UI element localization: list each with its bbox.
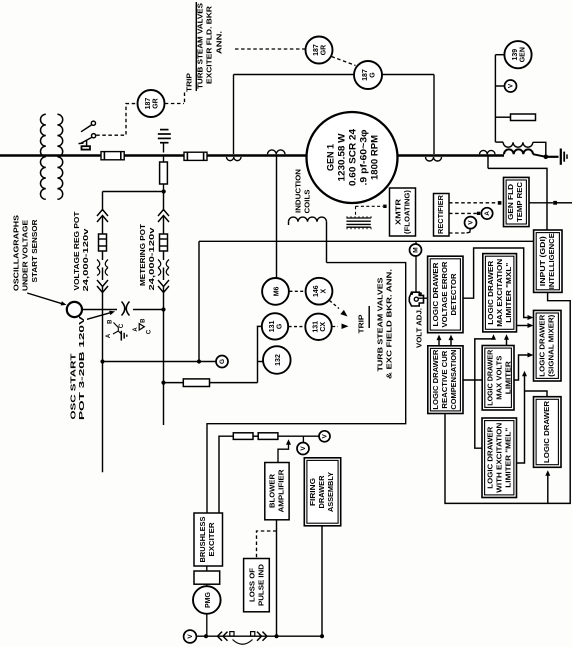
- exciter transformer top winding: [495, 141, 503, 143]
- wire volt adj to VED: [418, 297, 427, 299]
- svg-text:139: 139: [512, 49, 519, 61]
- wire induction coil down: [326, 222, 328, 263]
- relay 139 GEN: [504, 41, 531, 68]
- transformer T1 primary winding: [40, 114, 45, 199]
- dashed link 187GR-187G: [332, 57, 356, 66]
- capacitor C1 (above bus): [160, 129, 169, 131]
- svg-text:INTELLIGENCE: INTELLIGENCE: [547, 233, 556, 289]
- wire branch to logic drawer top: [525, 391, 548, 397]
- wire resistor to relay bracket: [210, 382, 258, 384]
- wire resistors to voltmeter: [278, 435, 319, 437]
- svg-text:B: B: [108, 319, 114, 324]
- ground (phase diagram): [118, 331, 121, 334]
- svg-text:LOGIC DRAWER: LOGIC DRAWER: [486, 426, 495, 489]
- wire rail to M: [415, 241, 417, 244]
- svg-text:(SIGNAL MIXER): (SIGNAL MIXER): [547, 314, 556, 377]
- svg-text:INPUT (GDI): INPUT (GDI): [538, 235, 547, 286]
- wire sensor to metering leg: [82, 309, 117, 311]
- wire MEL to signal mixer: [517, 373, 525, 463]
- generator GEN 1: [307, 112, 398, 203]
- wire MXL to signal mixer: [517, 325, 532, 327]
- box LOGIC DRAWER VOLTAGE ERROR DETECTOR: [428, 256, 463, 333]
- dashed wire hatch to XMTR: [355, 206, 357, 216]
- wire bus to input gdi: [488, 168, 547, 230]
- svg-text:WITH EXCITATION: WITH EXCITATION: [495, 423, 504, 493]
- svg-text:VOLT ADJ.: VOLT ADJ.: [415, 308, 424, 348]
- box LOGIC DRAWER REACTIVE CUR COMPENSATION: [428, 346, 463, 414]
- node metering/sensor: [161, 307, 165, 311]
- resistor R5: [258, 433, 278, 440]
- dashed control wire switch to relay 187GR: [96, 104, 136, 136]
- box GEN FLD TEMP REC: [504, 177, 530, 226]
- wire metering pot leg down: [163, 293, 165, 426]
- relay M6: [262, 278, 289, 305]
- dashed wire rectifier to ammeter: [449, 212, 477, 214]
- relay 187 GR (second): [306, 37, 333, 64]
- ammeter A: [481, 208, 492, 219]
- svg-text:G: G: [219, 359, 226, 364]
- wire blower amp down: [276, 520, 278, 636]
- svg-text:B: B: [141, 318, 147, 323]
- box INPUT (GDI) INTELLIGENCE: [534, 230, 562, 292]
- voltmeter V (firing): [297, 443, 309, 455]
- fuse / plug symbols: [218, 632, 223, 641]
- svg-text:ASSEMBLY: ASSEMBLY: [326, 472, 335, 512]
- wire PMG down: [206, 614, 208, 636]
- node blower leg: [274, 634, 278, 638]
- svg-text:24,000-120v: 24,000-120v: [81, 227, 90, 291]
- svg-text:LOGIC DRAWER: LOGIC DRAWER: [486, 349, 495, 406]
- fuse F2: [184, 152, 207, 160]
- generator PMG: [193, 586, 221, 614]
- voltmeter V: [465, 217, 477, 229]
- transformer T1 secondary winding: [57, 114, 62, 199]
- svg-text:LOGIC DRAWER: LOGIC DRAWER: [431, 262, 440, 327]
- svg-text:LOGIC DRAWER: LOGIC DRAWER: [486, 260, 495, 325]
- svg-text:GEN 1: GEN 1: [326, 144, 336, 171]
- svg-text:LOSS OF: LOSS OF: [248, 567, 257, 602]
- svg-text:24,000-120v: 24,000-120v: [147, 226, 156, 290]
- node bus/ground: [544, 155, 549, 160]
- node: pot feeder junction: [162, 189, 166, 193]
- wire to resistor: [495, 116, 510, 118]
- svg-text:V: V: [300, 446, 307, 451]
- bottom rail wire: [197, 635, 323, 637]
- svg-text:OSCILLAGRAPHS: OSCILLAGRAPHS: [12, 215, 21, 291]
- arrow 131CX to TRIP: [332, 326, 338, 328]
- node PMG: [204, 634, 208, 638]
- wire voltage-reg-pot leg down: [102, 293, 104, 473]
- node rail/relay G: [197, 359, 201, 363]
- motor M: [410, 244, 422, 256]
- wire stub to voltmeter 2: [302, 436, 304, 443]
- svg-text:TEMP REC: TEMP REC: [515, 182, 524, 222]
- svg-text:M6: M6: [274, 286, 281, 296]
- svg-text:C: C: [119, 323, 125, 328]
- label rule line: [195, 2, 197, 91]
- svg-text:MAX VOLTS: MAX VOLTS: [495, 355, 504, 399]
- wire MEL up to MXL: [475, 337, 494, 449]
- ground (bus right end): [560, 149, 562, 165]
- svg-text:LIMITER "MXL": LIMITER "MXL": [504, 263, 513, 323]
- box LOGIC DRAWER MAX EXCITATION LIMITER MXL: [483, 254, 517, 332]
- wire loop: coil to exciter: [207, 263, 406, 513]
- dashed wire loss of pulse: [257, 531, 277, 559]
- svg-text:TURB STEAM VALVES: TURB STEAM VALVES: [196, 3, 205, 89]
- svg-text:BLOWER: BLOWER: [268, 473, 277, 508]
- svg-text:XMTR: XMTR: [394, 198, 403, 225]
- leader arrow to sensor: [27, 293, 62, 304]
- arrows reactive comp to VED: [438, 337, 440, 347]
- box BRUSHLESS EXCITER: [194, 513, 223, 566]
- wire rail up to long bus rail: [198, 241, 200, 361]
- voltmeter V (pmg): [184, 630, 197, 643]
- svg-text:C: C: [147, 329, 153, 334]
- svg-text:DRAWER: DRAWER: [317, 475, 326, 509]
- wire reactive comp to max volts: [463, 379, 482, 381]
- dashed wire rectifier to temp rec: [449, 202, 498, 204]
- svg-text:AMPLIFIER: AMPLIFIER: [277, 469, 286, 513]
- wire breaker loop left leg: [233, 75, 235, 155]
- svg-text:G: G: [369, 72, 376, 78]
- arrow max volts to MXL: [506, 337, 508, 346]
- resistor rail: [219, 436, 233, 513]
- svg-text:131: 131: [313, 321, 320, 333]
- svg-text:COMPENSATION: COMPENSATION: [449, 350, 458, 410]
- svg-text:REACTIVE CUR: REACTIVE CUR: [440, 350, 449, 409]
- svg-text:MAX EXCITATION: MAX EXCITATION: [495, 259, 504, 327]
- svg-text:146: 146: [313, 285, 320, 297]
- wire VED to signal mixer: [463, 248, 531, 318]
- svg-text:START SENSOR: START SENSOR: [30, 219, 39, 283]
- wire bus down to M6: [276, 156, 278, 279]
- wire max volts to signal mixer: [514, 355, 531, 380]
- svg-text:A: A: [484, 211, 491, 216]
- arrow rail into logic drawer: [547, 473, 549, 504]
- relay bracket wire: [258, 326, 262, 382]
- node on voltage reg leg: [100, 359, 104, 363]
- relay 132: [263, 346, 291, 374]
- svg-text:X: X: [320, 289, 327, 294]
- svg-text:LOGIC DRAWER: LOGIC DRAWER: [431, 349, 440, 410]
- wire to voltmeter: [495, 85, 504, 87]
- field element (hatch): [346, 217, 370, 219]
- disconnect switch S1: [91, 121, 95, 125]
- potentiometer: metering pot: [158, 216, 169, 223]
- svg-text:BRUSHLESS: BRUSHLESS: [198, 516, 207, 562]
- svg-text:FIRING: FIRING: [308, 478, 317, 506]
- wire stub to 132: [258, 361, 263, 363]
- svg-text:LOGIC DRAWER: LOGIC DRAWER: [538, 314, 547, 377]
- wire meter chain: [494, 55, 496, 142]
- main generator bus: [0, 154, 307, 157]
- undervoltage start sensor: [67, 302, 82, 317]
- svg-text:A: A: [133, 327, 139, 332]
- box BLOWER AMPLIFIER: [265, 463, 289, 520]
- svg-text:187: 187: [362, 69, 369, 81]
- meter G: [216, 356, 228, 368]
- wire firing drawer down: [321, 526, 323, 636]
- relay 146 X: [306, 278, 333, 305]
- svg-text:UNDER VOLTAGE: UNDER VOLTAGE: [21, 220, 30, 291]
- svg-text:RECTIFIER: RECTIFIER: [436, 194, 445, 234]
- voltmeter V (exciter): [319, 431, 330, 442]
- dashed link 131G-131CX: [289, 326, 305, 328]
- node resistor tap: [161, 381, 165, 385]
- dashed wire rectifier to voltmeter: [449, 232, 467, 234]
- svg-text:PMG: PMG: [205, 591, 212, 608]
- svg-text:EXCITER: EXCITER: [207, 522, 216, 557]
- voltmeter V (gen): [505, 80, 517, 92]
- node firing leg: [320, 634, 324, 638]
- svg-text:LOGIC DRAWER: LOGIC DRAWER: [542, 400, 551, 463]
- svg-text:V: V: [508, 83, 515, 88]
- box LOGIC DRAWER (plain): [534, 397, 562, 468]
- wire blower amp to rail (arrow): [278, 442, 289, 463]
- svg-text:GR: GR: [152, 98, 159, 109]
- wire bus down to gen fld loop: [487, 156, 489, 169]
- relay 131 G: [262, 313, 288, 339]
- CT pair at 434: [426, 157, 442, 161]
- svg-text:INDUCTION: INDUCTION: [294, 169, 303, 213]
- CT pair at 276: [268, 150, 286, 154]
- wire temp rec output: [529, 202, 553, 204]
- svg-text:187: 187: [313, 44, 320, 56]
- TRIP underline: [368, 306, 370, 328]
- box LOGIC DRAWER (SIGNAL MIXER): [534, 310, 562, 381]
- fuse F1: [101, 152, 124, 160]
- leader arrow to T2: [87, 313, 110, 320]
- svg-text:0.60 SCR 24: 0.60 SCR 24: [348, 129, 358, 186]
- svg-text:VOLTAGE REG POT: VOLTAGE REG POT: [72, 211, 81, 290]
- svg-text:TRIP: TRIP: [185, 73, 194, 92]
- svg-text:V: V: [322, 433, 329, 438]
- svg-text:GEN: GEN: [519, 47, 526, 62]
- svg-text:DETECTOR: DETECTOR: [449, 273, 458, 316]
- volt adj rheostat motor: [409, 292, 423, 306]
- wire M to volt adj: [415, 256, 417, 297]
- exciter armature: [194, 571, 220, 584]
- resistor R4: [233, 433, 253, 440]
- resistor R1 (below bus): [163, 156, 165, 163]
- svg-text:& EXC FIELD BKR. ANN.: & EXC FIELD BKR. ANN.: [385, 269, 394, 379]
- svg-text:CX: CX: [320, 322, 327, 332]
- svg-text:(FLOATING): (FLOATING): [403, 189, 412, 234]
- svg-text:A: A: [106, 333, 112, 338]
- svg-text:1230.58 W: 1230.58 W: [337, 133, 347, 182]
- svg-text:M: M: [413, 247, 420, 252]
- CT pair at 233: [227, 157, 242, 161]
- svg-text:ANN.: ANN.: [215, 31, 224, 54]
- svg-text:GR: GR: [320, 45, 327, 56]
- long sensing rail: [199, 240, 534, 242]
- svg-text:EXCITER FLD. BKR: EXCITER FLD. BKR: [205, 5, 214, 84]
- wire: [206, 566, 208, 571]
- svg-text:187: 187: [145, 98, 152, 110]
- relay 187 GR (left): [138, 90, 165, 117]
- svg-text:TRIP: TRIP: [357, 315, 366, 334]
- box LOGIC DRAWER WITH EXCITATION LIMITER MEL: [482, 418, 517, 498]
- dashed leader to TRIP: [165, 103, 184, 105]
- svg-text:LIMITER "MEL": LIMITER "MEL": [504, 428, 513, 488]
- relay 187 G: [354, 61, 382, 89]
- dashed link M6-146X: [289, 290, 305, 292]
- box RECTIFIER: [434, 194, 450, 237]
- svg-text:G: G: [276, 323, 283, 329]
- svg-text:POT 3-20B 120V: POT 3-20B 120V: [77, 314, 86, 420]
- resistor R2 (field discharge): [183, 379, 209, 387]
- box LOSS OF PULSE IND: [244, 559, 270, 612]
- wire breaker loop top: [234, 74, 355, 76]
- wire pot junction rail: [103, 361, 217, 363]
- wire breaker loop right leg: [433, 75, 435, 155]
- svg-text:132: 132: [275, 354, 282, 366]
- CT pair at 488: [480, 150, 496, 154]
- dashed ann. wire: [235, 48, 305, 50]
- induction coil winding: [288, 222, 290, 225]
- svg-text:131: 131: [269, 320, 276, 332]
- svg-text:GEN FLD: GEN FLD: [506, 184, 515, 220]
- svg-text:V: V: [187, 634, 194, 639]
- svg-text:COILS: COILS: [303, 190, 312, 214]
- bottom feedback rail: [445, 292, 570, 503]
- wire metering pot top: [163, 192, 165, 212]
- exciter transformer bottom winding (on bus): [504, 149, 533, 154]
- svg-text:VOLTAGE ERROR: VOLTAGE ERROR: [440, 261, 449, 328]
- box FIRING DRAWER ASSEMBLY: [304, 458, 340, 526]
- svg-text:TURB STEAM VALVES: TURB STEAM VALVES: [376, 278, 385, 372]
- resistor R3: [511, 114, 536, 121]
- svg-text:METERING POT: METERING POT: [138, 224, 147, 286]
- transformer T2 (iso): [122, 302, 125, 316]
- potentiometer: voltage reg pot: [97, 216, 108, 223]
- wire from junction to voltage reg pot: [103, 191, 164, 193]
- relay 131 CX: [305, 314, 331, 340]
- box LOGIC DRAWER MAX VOLTS LIMITER: [482, 346, 514, 411]
- svg-text:PULSE IND: PULSE IND: [257, 564, 266, 606]
- svg-text:1800 RPM: 1800 RPM: [370, 135, 380, 180]
- dashed arrow 146X to TRIP: [330, 301, 340, 309]
- svg-text:.9 pf-60~3φ: .9 pf-60~3φ: [359, 130, 369, 186]
- svg-text:LIMITER: LIMITER: [504, 360, 513, 394]
- wire: [206, 584, 208, 586]
- box XMTR (FLOATING): [390, 188, 416, 236]
- svg-text:V: V: [468, 220, 475, 225]
